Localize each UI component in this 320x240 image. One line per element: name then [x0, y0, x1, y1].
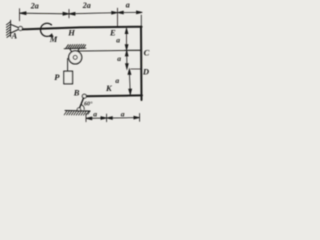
fixed bracket hatching above pulley: [64, 44, 86, 48]
bottom beam K to B: [84, 94, 142, 97]
pulley hub: [73, 55, 77, 59]
rope to C: [77, 49, 141, 52]
svg-text:2a: 2a: [82, 1, 91, 10]
ground line at B with hatching: [64, 111, 90, 116]
svg-text:C: C: [144, 47, 150, 57]
top dimension line 2a,2a,a: [20, 8, 143, 26]
paper background: [0, 0, 154, 137]
svg-text:A: A: [11, 31, 18, 41]
svg-text:a: a: [126, 1, 130, 10]
lower pin of rod: [77, 108, 80, 111]
svg-text:a: a: [117, 54, 121, 63]
svg-text:H: H: [67, 27, 75, 37]
pulley bracket: [70, 49, 79, 56]
svg-text:P: P: [54, 72, 60, 82]
vertical dim line: D to K level: [128, 69, 132, 94]
tick at C: [125, 49, 141, 51]
svg-text:D: D: [142, 66, 149, 76]
bottom dimension line a,a: [86, 113, 140, 121]
svg-text:a: a: [116, 36, 120, 45]
svg-text:B: B: [73, 88, 80, 98]
node B pin circle: [82, 94, 86, 98]
top beam A to corner: [22, 27, 141, 30]
vertical dim line: corner to C: [125, 28, 128, 50]
moment M arc with arrow: [40, 23, 51, 36]
svg-text:a: a: [115, 76, 119, 85]
svg-text:60°: 60°: [84, 101, 93, 108]
weight P box: [64, 71, 73, 84]
pulley wheel: [69, 51, 82, 64]
rope down to weight: [67, 59, 69, 72]
support rod at B (60 deg): [79, 98, 83, 109]
svg-text:a: a: [121, 109, 125, 118]
svg-text:a: a: [93, 110, 97, 119]
pin support triangle at A: [11, 24, 21, 33]
right vertical member: [140, 27, 143, 100]
svg-text:2a: 2a: [30, 2, 39, 11]
angle arc 60deg at rod base: [81, 105, 84, 110]
svg-text:M: M: [49, 34, 58, 44]
tick at D: [131, 68, 141, 70]
vertical dim line: C to D: [125, 51, 128, 69]
svg-text:E: E: [109, 28, 116, 38]
node A pin circle: [19, 27, 23, 31]
wall at A with hatching: [6, 20, 10, 37]
